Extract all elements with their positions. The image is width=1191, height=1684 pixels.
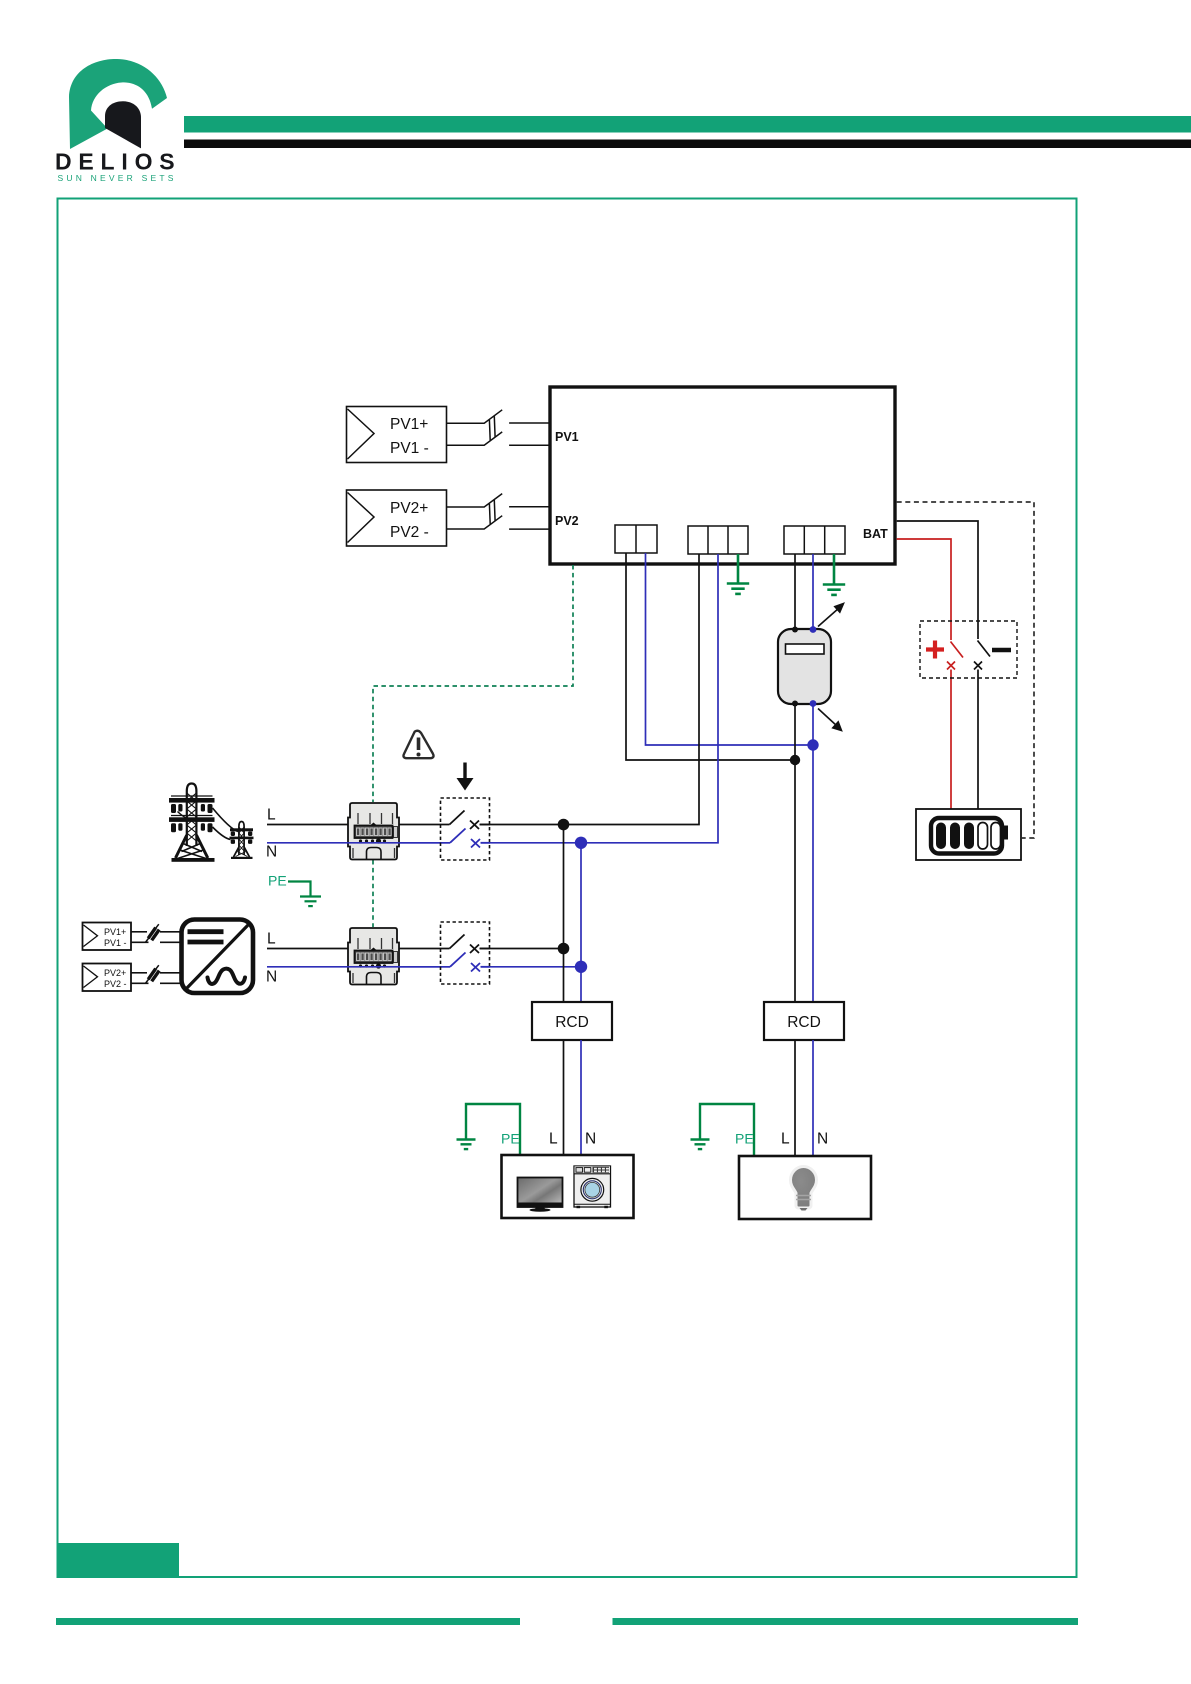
svg-text:BAT: BAT (863, 527, 888, 541)
battery wire negative (black) (897, 521, 990, 809)
wire RCD1 N to load1 (580, 1040, 582, 1155)
wire RCD2 N to load2 (812, 1040, 814, 1156)
svg-text:PE: PE (501, 1131, 520, 1147)
wire meter bottom N down to RCD (812, 703, 814, 1002)
header black bar (184, 140, 1191, 149)
wire N down to RCD1 (580, 843, 582, 1002)
footer bar right (613, 1618, 1079, 1625)
svg-text:DELIOS: DELIOS (55, 149, 179, 175)
wires mini PV1 with bold connector (131, 924, 180, 942)
ground symbol under GRID block (727, 554, 749, 594)
content border frame (58, 199, 1077, 1578)
svg-text:N: N (266, 844, 277, 861)
pv array box PV2 (347, 490, 447, 546)
svg-text:L: L (549, 1131, 558, 1148)
svg-text:PV2 -: PV2 - (104, 979, 127, 989)
switch box pv (dashed) (441, 922, 490, 984)
wire pv-inverter L (267, 948, 450, 950)
svg-text:PE: PE (268, 873, 287, 889)
switch blade grid N (450, 829, 490, 848)
pv string mini box PV1 (83, 923, 132, 951)
washing machine icon (574, 1166, 611, 1208)
svg-text:N: N (266, 969, 277, 986)
wire AC1-L to backup node (626, 553, 795, 760)
tv icon (517, 1178, 563, 1212)
down arrow (457, 763, 474, 791)
header green bar (184, 116, 1191, 133)
wire GRID-L down (480, 554, 699, 825)
RCD breaker 1 (532, 1002, 612, 1040)
wire N junction to switch2 output (481, 966, 581, 968)
utility grid towers icon (169, 784, 254, 862)
wire BACKUP-L to meter (794, 554, 796, 630)
junction node pv N (575, 961, 587, 973)
battery icon (931, 818, 1008, 854)
pv array box PV1 (347, 407, 447, 463)
battery wire positive (red) (897, 539, 963, 809)
energy meter (battery side) (778, 629, 831, 704)
svg-text:PE: PE (735, 1131, 754, 1147)
wire grid N (267, 842, 450, 844)
load box 1 (grid loads) (502, 1155, 634, 1218)
svg-text:L: L (267, 807, 276, 824)
terminal block BACKUP (3-pole) (784, 526, 845, 554)
switch blade pv N (450, 953, 490, 972)
arrow down-right at meter bottom (818, 709, 842, 731)
junction node grid L (558, 819, 570, 831)
ground symbol grid PE (288, 882, 321, 907)
external pv inverter icon (182, 920, 254, 994)
wire PV1- with connector (447, 432, 550, 445)
battery breaker dashed box (920, 621, 1017, 678)
plus symbol (926, 641, 944, 659)
wire AC1-N to backup node (646, 553, 814, 745)
RCD breaker 2 (764, 1002, 844, 1040)
wire pv N over meter (347, 966, 450, 968)
switch box grid (dashed) (441, 798, 490, 860)
junction node grid N (575, 837, 587, 849)
junction node backup-L (790, 755, 800, 765)
switch blade grid L (450, 811, 491, 830)
pv string mini box PV2 (83, 964, 132, 992)
terminal block GRID (3-pole) (688, 526, 748, 554)
svg-text:PV1: PV1 (555, 430, 579, 444)
dashed comm line inverter to meters (373, 565, 573, 802)
svg-text:RCD: RCD (555, 1014, 589, 1031)
svg-text:L: L (267, 931, 276, 948)
svg-text:L: L (781, 1131, 790, 1148)
ground symbol under BACKUP block (823, 554, 845, 595)
wire pv-inverter N (267, 966, 450, 968)
load box 2 (backup loads) (739, 1156, 871, 1219)
dashed comm line between meters (372, 860, 374, 927)
ground and PE wire load2 (691, 1104, 755, 1156)
battery enclosure box (916, 809, 1021, 860)
wire RCD2 L to load2 (794, 1040, 796, 1156)
junction node pv L (558, 943, 570, 955)
wire RCD1 L to load1 (563, 1040, 565, 1155)
ground and PE wire load1 (457, 1104, 521, 1155)
wire PV1+ with connector (447, 410, 550, 441)
wire PV2+ with connector (447, 494, 550, 524)
svg-text:N: N (817, 1131, 828, 1148)
footer green block (57, 1543, 180, 1578)
svg-text:PV2+: PV2+ (390, 500, 428, 517)
wire GRID-N down (481, 554, 718, 843)
svg-text:PV2: PV2 (555, 514, 579, 528)
energy meter grid (DIN) (348, 803, 399, 860)
svg-text:PV1 -: PV1 - (104, 938, 127, 948)
energy meter pv (DIN) (348, 928, 399, 985)
svg-text:PV1+: PV1+ (104, 927, 126, 937)
junction node backup-N (807, 739, 818, 750)
logo crest (green helmet) (69, 59, 167, 149)
arrow up-right at meter top (818, 604, 844, 627)
wire L junction to switch2 output (480, 948, 564, 950)
wire grid L (267, 824, 450, 826)
svg-text:PV2 -: PV2 - (390, 524, 429, 541)
svg-text:SUN NEVER SETS: SUN NEVER SETS (58, 173, 177, 183)
terminal block AC1 (2-pole) (615, 525, 657, 553)
wires mini PV2 with bold connector (131, 965, 180, 983)
meter terminal dots (792, 626, 816, 707)
wire L down to RCD1 (563, 825, 565, 1003)
svg-text:N: N (585, 1131, 596, 1148)
svg-text:PV2+: PV2+ (104, 968, 126, 978)
wire grid N over meter (347, 842, 450, 844)
svg-text:PV1+: PV1+ (390, 416, 428, 433)
minus symbol (992, 648, 1011, 653)
footer bar left (56, 1618, 520, 1625)
logo helm face (black) (105, 101, 141, 148)
dashed link inverter to battery box (897, 502, 1034, 838)
svg-text:PV1 -: PV1 - (390, 440, 429, 457)
warning triangle (403, 731, 433, 759)
inverter main unit (550, 387, 895, 564)
wire meter bottom L down to RCD (794, 703, 796, 1002)
wire BACKUP-N to meter (812, 554, 814, 630)
wire PV2- with connector (447, 516, 550, 529)
svg-text:RCD: RCD (787, 1014, 821, 1031)
switch blade pv L (450, 935, 491, 954)
light bulb icon (791, 1167, 817, 1211)
